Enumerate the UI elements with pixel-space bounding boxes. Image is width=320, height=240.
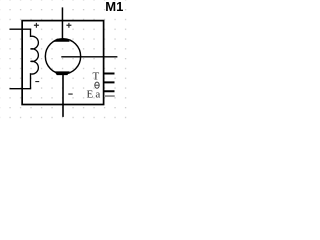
svg-text:Ea: Ea [87,89,103,101]
svg-text:M1: M1 [105,0,123,14]
svg-text:T: T [92,71,99,83]
